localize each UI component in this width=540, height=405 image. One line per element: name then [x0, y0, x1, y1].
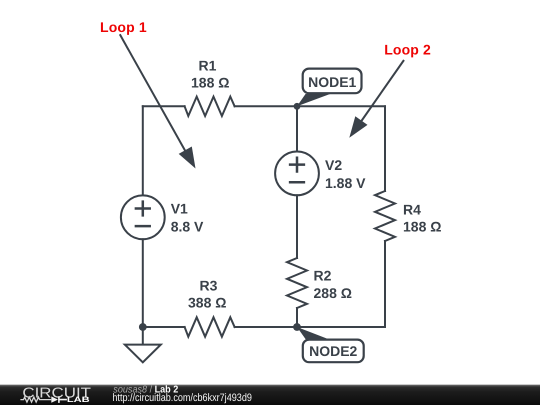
- arrow Loop 2 line: [360, 60, 404, 123]
- NODE2 callout box: [303, 340, 364, 363]
- svg-text:R1: R1: [199, 58, 217, 74]
- svg-text:V2: V2: [325, 157, 342, 173]
- svg-text:R2: R2: [314, 268, 332, 284]
- svg-text:188 Ω: 188 Ω: [191, 75, 229, 91]
- footer logo diode: [51, 396, 67, 403]
- svg-text:Loop 2: Loop 2: [384, 42, 431, 58]
- svg-text:http://circuitlab.com/cb6kxr7j: http://circuitlab.com/cb6kxr7j493d9: [112, 392, 252, 404]
- voltage source V1: [121, 195, 165, 239]
- svg-text:R3: R3: [200, 278, 218, 294]
- svg-text:NODE2: NODE2: [309, 343, 357, 359]
- ground: [125, 327, 161, 362]
- arrow Loop 1 head: [179, 147, 196, 169]
- resistor R3: [185, 317, 235, 336]
- wire left vertical lower: [142, 239, 144, 327]
- wire top-left horizontal segment: [143, 105, 185, 107]
- wire right vertical upper: [384, 106, 386, 191]
- svg-text:188 Ω: 188 Ω: [403, 219, 441, 235]
- NODE1 callout box: [303, 69, 362, 94]
- node ground junction dot: [139, 323, 147, 331]
- NODE1 callout tail: [297, 94, 330, 106]
- footer bar: [0, 385, 540, 405]
- wire top-right horizontal segment: [235, 105, 385, 107]
- svg-text:8.8 V: 8.8 V: [171, 219, 204, 235]
- svg-text:388 Ω: 388 Ω: [188, 295, 226, 311]
- resistor R1: [185, 97, 235, 116]
- svg-text:R4: R4: [403, 201, 421, 217]
- node A junction dot NODE1: [294, 103, 301, 110]
- wire middle vertical mid: [296, 195, 298, 258]
- wire right vertical lower: [384, 241, 386, 327]
- wire left vertical upper: [142, 106, 144, 195]
- svg-text:NODE1: NODE1: [308, 74, 356, 90]
- svg-text:288 Ω: 288 Ω: [314, 285, 352, 301]
- svg-text:1.88 V: 1.88 V: [325, 175, 366, 191]
- wire bottom-right horizontal segment: [235, 326, 385, 328]
- NODE2 callout tail: [297, 327, 330, 340]
- wire middle vertical upper: [296, 106, 298, 151]
- resistor R4: [375, 191, 395, 241]
- footer logo resistor squiggle: [20, 397, 51, 402]
- svg-text:V1: V1: [171, 201, 188, 217]
- node B junction dot NODE2: [293, 323, 301, 331]
- voltage source V2: [275, 152, 319, 196]
- resistor R2: [287, 258, 307, 308]
- wire bottom-left horizontal segment: [143, 326, 185, 328]
- arrow Loop 2 head: [349, 116, 367, 138]
- svg-text:LAB: LAB: [67, 395, 90, 404]
- svg-text:Loop 1: Loop 1: [100, 19, 147, 35]
- arrow Loop 1 line: [120, 34, 187, 154]
- wire middle vertical lower: [296, 308, 298, 327]
